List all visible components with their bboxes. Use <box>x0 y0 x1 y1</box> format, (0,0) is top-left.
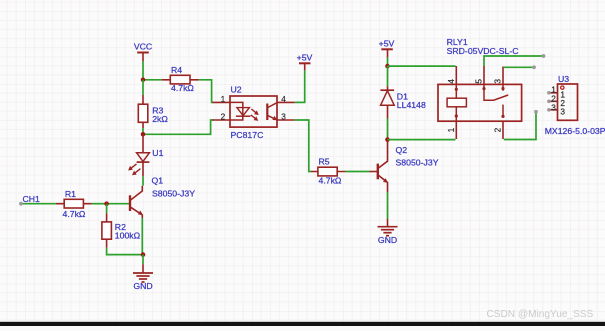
junction node A <box>104 201 109 206</box>
wire node E to relay pin 1 <box>388 139 456 141</box>
LED U1 <box>128 134 163 176</box>
pin 3 <box>277 119 295 121</box>
wire R1 to node A <box>92 203 107 205</box>
svg-text:MX126-5.0-03P-G: MX126-5.0-03P-G <box>545 126 605 136</box>
wire CH1 to R1 <box>23 203 56 205</box>
junction node E <box>385 137 390 142</box>
wire relay pin 5 stub <box>484 56 544 66</box>
svg-text:U3: U3 <box>558 74 569 84</box>
node CH1 <box>19 202 23 206</box>
power +5V (at U2) <box>297 53 313 71</box>
svg-text:SRD-05VDC-SL-C: SRD-05VDC-SL-C <box>447 46 519 56</box>
svg-text:3: 3 <box>551 102 556 112</box>
junction node B <box>141 252 146 257</box>
pin 3 <box>549 109 558 111</box>
diode D1 <box>380 86 426 118</box>
resistor R2 <box>102 213 141 248</box>
pin 1 <box>549 92 558 94</box>
wire R3 to node D <box>142 128 144 134</box>
pin 4 <box>455 66 457 84</box>
svg-text:CH1: CH1 <box>23 194 41 204</box>
resistor R1 <box>56 189 92 219</box>
switch NO contact (pin 2) <box>502 105 504 115</box>
svg-text:3: 3 <box>281 112 286 122</box>
bottom bar <box>0 322 605 326</box>
wire Q1 emitter to bottom rail <box>141 218 143 255</box>
svg-text:R4: R4 <box>171 65 182 75</box>
svg-text:4: 4 <box>446 79 456 84</box>
wire node F to relay pin 4 <box>388 65 456 67</box>
transistor Q1 <box>130 176 195 219</box>
svg-text:LL4148: LL4148 <box>397 100 426 110</box>
wire relay pin 3 stub <box>504 66 534 68</box>
ground GND1 <box>133 264 153 291</box>
wire node D to U2 pin 2 <box>143 120 214 134</box>
internal light arrows <box>251 109 256 119</box>
pin 3 <box>502 67 504 85</box>
wire node A to Q1 base <box>107 203 129 205</box>
internal LED <box>230 102 243 120</box>
svg-text:R1: R1 <box>65 189 76 199</box>
power VCC <box>134 42 152 62</box>
svg-text:PC817C: PC817C <box>231 130 264 140</box>
svg-text:2: 2 <box>493 127 503 132</box>
pin 1 <box>213 101 231 103</box>
svg-text:4.7kΩ: 4.7kΩ <box>319 176 342 186</box>
wire U2 pin 4 to +5V <box>295 70 305 102</box>
junction node C <box>141 78 146 83</box>
node end pin2 <box>534 110 538 114</box>
wire VCC to node C <box>142 61 144 79</box>
pin 2 <box>549 100 558 102</box>
internal phototransistor <box>266 104 268 121</box>
wire node C to R3 <box>142 80 144 95</box>
switch NC contact (pin 3) <box>502 84 504 90</box>
resistor R4 <box>162 65 199 93</box>
coil <box>455 84 457 121</box>
relay RLY1 SRD-05VDC-SL-C <box>438 37 522 139</box>
svg-text:GND: GND <box>378 235 397 245</box>
svg-text:+5V: +5V <box>379 38 395 48</box>
svg-text:Q2: Q2 <box>396 145 408 155</box>
svg-text:100kΩ: 100kΩ <box>115 230 141 240</box>
wire +5V to node F <box>387 58 389 67</box>
svg-text:U2: U2 <box>231 85 242 95</box>
svg-text:Q1: Q1 <box>152 176 164 186</box>
svg-text:2kΩ: 2kΩ <box>152 114 168 124</box>
svg-text:1: 1 <box>446 127 456 132</box>
wire D1 to node E <box>387 119 389 140</box>
svg-text:3: 3 <box>560 107 565 117</box>
junction node D <box>141 132 146 137</box>
connector U3 MX126 <box>545 74 605 136</box>
svg-text:S8050-J3Y: S8050-J3Y <box>396 157 439 167</box>
pin 2 <box>502 121 504 139</box>
svg-text:4.7kΩ: 4.7kΩ <box>171 83 194 93</box>
pin 4 <box>277 101 295 103</box>
wire node F to D1 <box>387 66 389 86</box>
wire relay pin 2 stub <box>504 112 536 140</box>
wire node B to GND <box>142 255 144 265</box>
resistor R3 <box>138 95 168 128</box>
power +5V (at relay) <box>379 38 395 57</box>
wire R2 to bottom rail <box>107 248 143 255</box>
switch common (pin 5) <box>484 84 508 100</box>
wire R5 to Q2 base <box>346 171 370 173</box>
wire Q2 emitter to GND <box>387 192 389 219</box>
svg-text:U1: U1 <box>152 148 163 158</box>
svg-text:S8050-J3Y: S8050-J3Y <box>152 189 195 199</box>
pin 1 <box>455 121 457 139</box>
wire node C to R4 <box>143 79 162 81</box>
svg-text:2: 2 <box>221 112 226 122</box>
svg-text:5: 5 <box>474 79 484 84</box>
op-amp U2 optocoupler PC817C <box>213 85 295 140</box>
wire U2 pin 3 to R5 <box>295 120 311 172</box>
svg-text:3: 3 <box>493 79 503 84</box>
svg-text:R5: R5 <box>319 157 330 167</box>
wire node A to R2 <box>106 204 108 214</box>
node end pin3 <box>532 65 536 69</box>
wire R4 to U2 pin 1 <box>199 80 214 103</box>
pin 5 <box>483 66 485 85</box>
resistor R5 <box>311 157 346 186</box>
svg-text:VCC: VCC <box>134 42 152 52</box>
junction node F <box>385 64 390 69</box>
svg-text:1: 1 <box>221 94 226 104</box>
svg-text:+5V: +5V <box>297 53 313 63</box>
svg-text:4.7kΩ: 4.7kΩ <box>63 209 86 219</box>
ground GND2 <box>378 219 398 246</box>
svg-text:GND: GND <box>133 281 152 291</box>
node end pin5 <box>542 54 546 58</box>
svg-text:4: 4 <box>281 94 286 104</box>
wire U1 to Q1 collector <box>142 176 144 185</box>
pin 2 <box>213 119 231 121</box>
svg-text:CSDN @MingYue_SSS: CSDN @MingYue_SSS <box>487 309 594 320</box>
transistor Q2 <box>378 141 439 192</box>
